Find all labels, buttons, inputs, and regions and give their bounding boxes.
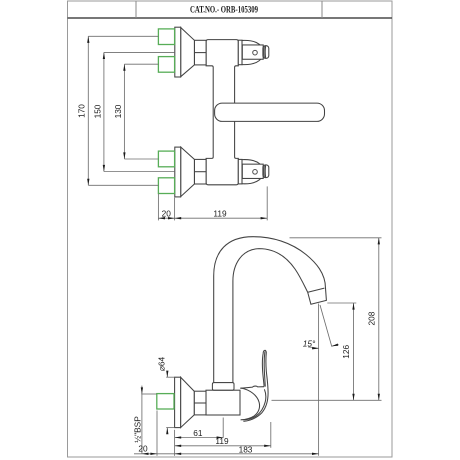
handle knob top (g at cy=52.45): [238, 40, 268, 64]
svg-text:15°: 15°: [303, 338, 316, 348]
svg-text:208: 208: [367, 311, 377, 325]
BSP leader line: [141, 386, 143, 454]
dim 61: [174, 430, 176, 456]
dim 126: [327, 302, 356, 304]
svg-text:170: 170: [76, 104, 86, 118]
spout bar (plan): [215, 103, 325, 121]
title separator line: [68, 17, 393, 19]
riser collar: [212, 383, 234, 391]
green inlet block 3: [158, 151, 174, 167]
lever handle blade: [243, 350, 268, 421]
svg-text:126: 126: [341, 344, 351, 358]
svg-text:130: 130: [113, 104, 123, 118]
title cell divider right: [321, 1, 323, 18]
lower valve: wall plate: [175, 147, 181, 197]
lever inner wrap edge: [243, 389, 266, 420]
dim 130: [124, 63, 158, 65]
svg-text:183: 183: [239, 444, 253, 454]
svg-text:CAT.NO.- ORB-105309: CAT.NO.- ORB-105309: [190, 5, 258, 15]
knob collar: [238, 40, 242, 64]
lever base edge with pivot bump: [240, 386, 264, 388]
lower valve: escutcheon cone: [181, 147, 195, 197]
dim 208: [290, 237, 382, 239]
aerator joint line: [308, 288, 325, 292]
knob pin cap: [263, 46, 269, 59]
dim 150: [104, 51, 175, 53]
15 degree ray: [320, 305, 332, 347]
side neck: [194, 391, 206, 415]
svg-text:119: 119: [215, 436, 229, 446]
dim 170: [88, 35, 158, 37]
svg-text:119: 119: [213, 209, 227, 219]
side escutcheon cone: [181, 377, 195, 427]
upper valve: neck: [194, 40, 206, 65]
knob face: [242, 45, 263, 59]
svg-text:½"BSP: ½"BSP: [132, 416, 142, 443]
riser + swan neck tube + aerator: [214, 237, 327, 383]
dim 183: [318, 304, 320, 456]
green inlet block 1: [158, 29, 174, 45]
knob dome: [242, 40, 263, 64]
upper valve: escutcheon cone: [181, 28, 195, 77]
side bell rim: [175, 377, 181, 427]
handle knob bottom (cy=171.65): [238, 159, 268, 184]
cartridge dome: [241, 388, 260, 420]
svg-text:150: 150: [93, 104, 103, 118]
svg-text:61: 61: [193, 428, 203, 438]
upper valve: wall plate: [175, 27, 181, 77]
green inlet block (side): [157, 394, 174, 409]
dim phi64: [166, 376, 174, 378]
green inlet block 4: [158, 178, 174, 194]
svg-text:⌀64: ⌀64: [157, 357, 167, 372]
dim 20 (side): [156, 411, 158, 456]
side body: [206, 390, 240, 415]
dim 20 / 119 bottom of top view: [157, 194, 159, 221]
knob hole: [253, 50, 258, 55]
lower valve: neck: [194, 159, 206, 184]
dim 119 (side): [270, 422, 272, 448]
lever blade middle contour: [264, 351, 265, 386]
body housings and column: [206, 40, 238, 185]
title cell divider left: [135, 1, 137, 18]
green inlet block 2: [158, 57, 174, 73]
svg-text:20: 20: [138, 444, 148, 454]
svg-text:20: 20: [162, 209, 172, 219]
border frame: [68, 1, 393, 457]
